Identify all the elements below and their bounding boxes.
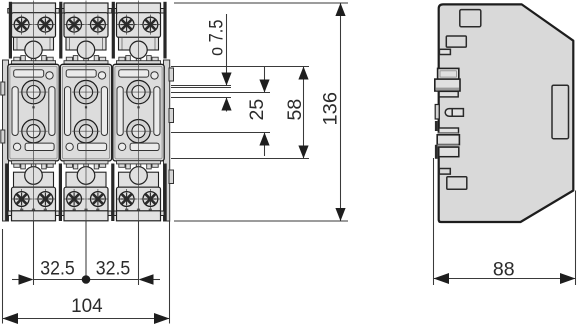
svg-text:88: 88 bbox=[493, 259, 515, 281]
svg-text:32.5: 32.5 bbox=[40, 258, 75, 280]
svg-text:104: 104 bbox=[71, 295, 103, 317]
svg-text:32.5: 32.5 bbox=[96, 258, 131, 280]
svg-text:136: 136 bbox=[320, 92, 342, 126]
svg-text:o 7.5: o 7.5 bbox=[206, 19, 228, 56]
svg-text:58: 58 bbox=[284, 99, 306, 121]
svg-text:25: 25 bbox=[246, 99, 268, 121]
